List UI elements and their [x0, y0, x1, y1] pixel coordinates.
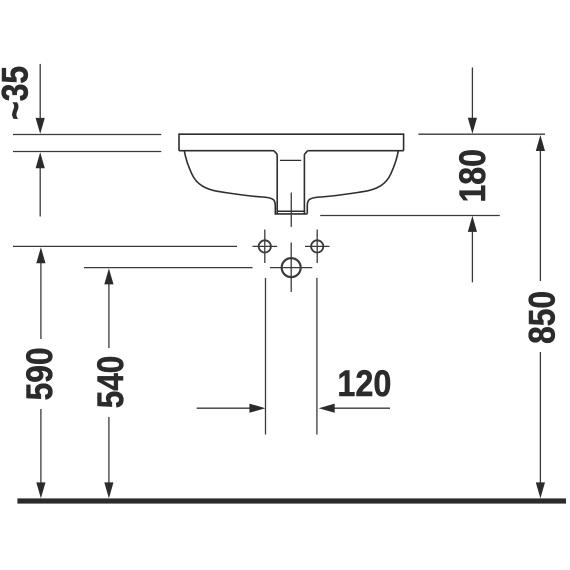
- countertop top line: [13, 134, 161, 136]
- dim 540 lower stem: [108, 417, 110, 486]
- dim 590 lower stem: [40, 409, 42, 486]
- dim 180 down arrowhead: [468, 118, 477, 134]
- svg-text:590: 590: [19, 347, 60, 400]
- drain channel chamfers: [274, 151, 307, 155]
- dim 590 down arrowhead: [36, 482, 45, 498]
- dim 540 upper stem: [108, 281, 110, 348]
- dim 850 lower stem: [539, 352, 541, 486]
- dim 180 lower stem: [471, 228, 473, 282]
- dim 540 down arrowhead: [104, 482, 113, 498]
- countertop bottom line: [13, 151, 161, 153]
- drain centerline: [290, 193, 292, 227]
- dim 180 upper stem: [471, 68, 473, 119]
- dim 180 bottom reference line: [320, 215, 500, 217]
- dim 590 upper stem: [40, 260, 42, 339]
- floor line: [17, 498, 566, 503]
- dim ~35 down arrowhead: [36, 118, 45, 134]
- dim 850 down arrowhead: [536, 482, 545, 498]
- bowl outer hull: [184, 151, 275, 214]
- svg-text:180: 180: [452, 149, 493, 203]
- holes reference line upper: [13, 245, 237, 247]
- dim 120 right arrow line: [334, 407, 390, 409]
- svg-text:540: 540: [90, 356, 131, 409]
- dim 590 up arrowhead: [36, 247, 45, 263]
- left faucet hole: [259, 240, 271, 252]
- dim 120 right extension line: [316, 278, 318, 435]
- svg-text:850: 850: [521, 291, 562, 344]
- dim 540 up arrowhead: [104, 268, 113, 284]
- svg-text:~35: ~35: [0, 66, 36, 120]
- basin rim: [179, 134, 404, 214]
- drain flange outer bottom: [275, 213, 308, 215]
- svg-text:120: 120: [337, 363, 391, 404]
- dim 850 up arrowhead: [536, 135, 545, 151]
- dim 120 left arrow line: [197, 407, 251, 409]
- holes reference line lower: [84, 267, 253, 269]
- dim 120 left-pointing arrowhead: [319, 404, 335, 413]
- dim ~35 lower stem: [39, 168, 41, 217]
- drain channel top line: [280, 159, 301, 161]
- drain channel walls: [277, 154, 304, 213]
- dim 850 upper stem: [539, 148, 541, 281]
- dim 180 up arrowhead: [468, 216, 477, 232]
- dim ~35 up arrowhead: [36, 152, 45, 168]
- drain flange inner bottom: [277, 210, 306, 212]
- dim 180 top reference line: [418, 133, 545, 135]
- dim 120 left extension line: [265, 278, 267, 435]
- drain hole: [282, 258, 301, 277]
- right faucet hole: [311, 240, 323, 252]
- dim 120 right-pointing arrowhead: [249, 404, 265, 413]
- dim ~35 extension line: [39, 64, 41, 119]
